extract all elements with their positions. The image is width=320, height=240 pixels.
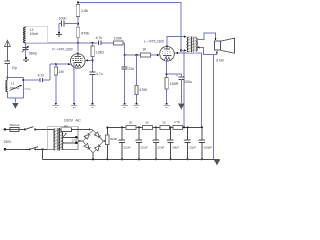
- svg-text:360p: 360p: [29, 51, 37, 55]
- svg-text:+: +: [166, 138, 168, 142]
- svg-text:100V AC: 100V AC: [64, 118, 81, 123]
- svg-text:47p: 47p: [12, 66, 18, 70]
- svg-text:4,7n: 4,7n: [38, 74, 45, 78]
- svg-text:+: +: [183, 138, 185, 142]
- svg-text:22uF: 22uF: [141, 145, 148, 149]
- svg-text:10mH: 10mH: [30, 32, 39, 36]
- svg-text:22uF: 22uF: [124, 145, 131, 149]
- svg-text:100u: 100u: [184, 80, 192, 84]
- svg-text:820K: 820K: [110, 137, 117, 141]
- svg-text:Rs: Rs: [64, 124, 68, 128]
- svg-text:470k: 470k: [81, 32, 89, 36]
- svg-text:150mH: 150mH: [10, 86, 20, 90]
- svg-text:4.7K: 4.7K: [174, 120, 180, 124]
- svg-text:L1: L1: [11, 82, 15, 86]
- svg-text:+: +: [118, 138, 120, 142]
- svg-text:1M: 1M: [59, 70, 64, 74]
- svg-text:4,7n: 4,7n: [96, 36, 103, 40]
- svg-text:8 Om: 8 Om: [216, 58, 224, 62]
- svg-text:100uF: 100uF: [203, 145, 212, 149]
- svg-text:1,5k: 1,5k: [81, 9, 88, 13]
- svg-text:500p: 500p: [25, 87, 32, 91]
- svg-text:+: +: [176, 74, 178, 78]
- svg-text:20uF: 20uF: [172, 145, 179, 149]
- svg-text:2K: 2K: [129, 121, 133, 125]
- svg-text:2K: 2K: [145, 121, 149, 125]
- svg-text:22uF: 22uF: [189, 145, 196, 149]
- svg-text:+: +: [198, 138, 200, 142]
- svg-text:+: +: [135, 138, 137, 142]
- svg-text:L-->FPL1300: L-->FPL1300: [144, 40, 164, 44]
- svg-text:1,2kΩ: 1,2kΩ: [95, 50, 104, 54]
- svg-text:2K: 2K: [162, 121, 166, 125]
- svg-text:150R: 150R: [170, 82, 179, 86]
- svg-text:+: +: [152, 138, 154, 142]
- svg-text:4,7u: 4,7u: [96, 72, 103, 76]
- svg-text:17V: 17V: [71, 139, 77, 143]
- svg-text:1K: 1K: [142, 48, 147, 52]
- svg-text:100K: 100K: [114, 37, 123, 41]
- svg-text:100n: 100n: [59, 16, 67, 20]
- svg-text:500mA: 500mA: [10, 123, 21, 127]
- svg-text:22uF: 22uF: [157, 145, 164, 149]
- svg-text:470K: 470K: [139, 88, 148, 92]
- svg-text:230V: 230V: [4, 140, 13, 144]
- svg-text:22n: 22n: [128, 67, 134, 71]
- svg-text:P-->FPL1300: P-->FPL1300: [52, 47, 72, 51]
